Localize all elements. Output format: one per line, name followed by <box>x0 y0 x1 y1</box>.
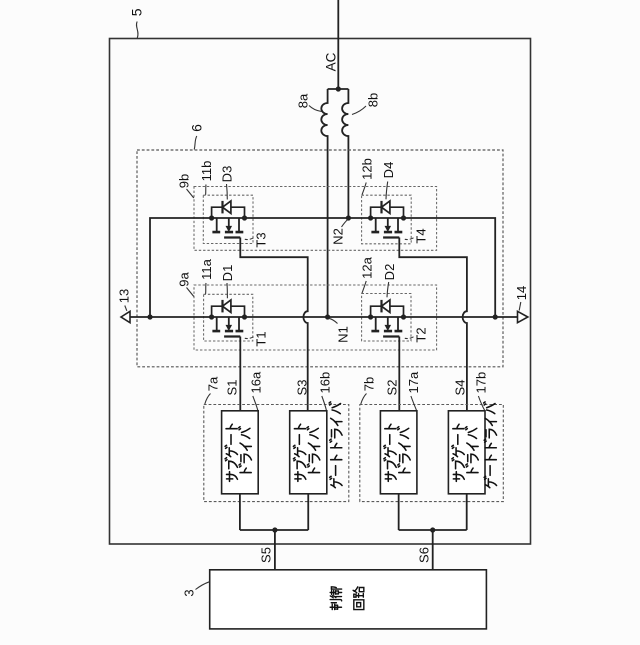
dashed box 9a (lower bidirectional switch) <box>194 285 437 350</box>
label 13 <box>117 289 132 311</box>
label 11a <box>199 258 214 294</box>
svg-text:S2: S2 <box>385 380 400 396</box>
svg-text:AC: AC <box>324 52 339 71</box>
text sub-gate-driver 16a <box>225 424 251 481</box>
svg-text:8b: 8b <box>366 93 381 107</box>
wire S6 bus bar <box>399 529 467 531</box>
svg-text:16b: 16b <box>318 372 333 394</box>
node S5 junction <box>272 527 277 532</box>
transistor T3 (with body diode D3) <box>209 201 247 238</box>
dashed box 6 (inverter block) <box>137 150 503 367</box>
label D4 <box>381 162 396 200</box>
svg-text:D1: D1 <box>220 265 235 282</box>
svg-text:16a: 16a <box>249 371 264 393</box>
label D1 <box>220 265 235 299</box>
dashed box 12a (switching element unit T2) <box>362 294 411 342</box>
dashed box 7b (gate driver unit right) <box>360 405 504 502</box>
sub gate driver box 16a <box>222 411 259 494</box>
label T4 <box>405 228 429 243</box>
label 7b <box>361 377 377 404</box>
inductor winding 8b <box>342 89 348 218</box>
label 16a <box>249 371 264 410</box>
svg-text:11a: 11a <box>199 258 214 279</box>
node left rail junction <box>147 314 152 319</box>
svg-text:5: 5 <box>129 8 145 16</box>
box 5 (power conversion device outline) <box>110 39 531 545</box>
transistor T4 (with body diode D4) <box>368 201 406 238</box>
wire driver 16b output <box>307 494 309 530</box>
svg-text:S6: S6 <box>417 547 432 563</box>
wire S4 gate path (T4 gate to driver 17b, hop over N1) <box>399 238 467 411</box>
wire driver 17a output <box>398 494 400 530</box>
label 17a <box>406 371 421 410</box>
terminal 14 <box>518 311 528 322</box>
svg-text:3: 3 <box>182 589 197 596</box>
svg-text:S3: S3 <box>295 380 310 396</box>
svg-text:7a: 7a <box>206 376 221 391</box>
label 12b <box>360 158 375 195</box>
sub gate driver box 16b <box>290 411 327 494</box>
sub gate driver box 17a <box>380 411 417 494</box>
label 11b <box>199 161 214 195</box>
node right rail junction <box>493 314 498 319</box>
transistor T2 (with body diode D2) <box>368 300 406 337</box>
node N2 <box>346 215 351 220</box>
svg-text:N1: N1 <box>336 326 351 343</box>
svg-text:6: 6 <box>189 124 205 132</box>
label 3 <box>182 582 210 597</box>
text control circuit <box>330 587 364 610</box>
inductor top bar <box>328 88 349 90</box>
label T2 <box>405 327 429 342</box>
svg-text:12b: 12b <box>360 158 375 180</box>
svg-text:17a: 17a <box>406 371 421 393</box>
svg-text:14: 14 <box>514 286 529 300</box>
svg-text:D3: D3 <box>220 166 235 183</box>
wire AC input <box>337 0 339 89</box>
control circuit box 3 <box>210 570 487 629</box>
node S6 junction <box>430 527 435 532</box>
text gate-driver label inside 7b <box>484 402 497 488</box>
sub gate driver box 17b <box>448 411 485 494</box>
svg-text:T1: T1 <box>254 331 269 346</box>
label D2 <box>382 264 397 298</box>
label 6 <box>189 124 205 150</box>
node N1 <box>325 314 330 319</box>
transistor T1 (with body diode D1) <box>209 300 247 337</box>
wire S1 gate path (T1 gate to driver 16a) <box>239 337 241 411</box>
dashed box 9b (upper bidirectional switch) <box>194 187 437 251</box>
dashed box 12b (switching element unit T4) <box>362 195 412 244</box>
label 8a <box>296 93 322 111</box>
dashed box 11b (switching element unit T3) <box>203 195 253 243</box>
label 5 <box>129 8 145 38</box>
label 8b <box>352 93 381 115</box>
text sub-gate-driver 16b <box>293 424 319 481</box>
dashed box 11a (switching element unit T1) <box>204 294 253 341</box>
svg-text:17b: 17b <box>474 372 489 394</box>
text sub-gate-driver 17a <box>384 424 410 481</box>
label 16b <box>318 372 333 411</box>
wire S3 gate path (T3 gate to driver 16b, hop over N1) <box>240 238 307 411</box>
svg-text:7b: 7b <box>362 377 377 391</box>
wire driver 17b output <box>466 494 468 530</box>
svg-text:9b: 9b <box>177 174 192 188</box>
inductor winding 8a <box>321 89 327 317</box>
svg-text:D4: D4 <box>381 162 396 179</box>
svg-text:S4: S4 <box>453 380 468 396</box>
wire S5 to control circuit <box>274 530 276 570</box>
text gate-driver label inside 7a <box>329 402 342 488</box>
label 7a <box>205 376 221 404</box>
svg-text:D2: D2 <box>382 264 397 281</box>
svg-text:N2: N2 <box>331 228 346 245</box>
node AC/coil junction <box>336 86 341 91</box>
wire S6 to control circuit <box>432 530 434 570</box>
label T3 <box>245 232 269 247</box>
label 9a <box>177 272 194 297</box>
label T1 <box>245 331 269 346</box>
dashed box 7a (gate driver unit left) <box>204 405 349 502</box>
label D3 <box>220 166 235 200</box>
svg-text:T2: T2 <box>414 327 429 342</box>
text sub-gate-driver 17b <box>452 424 478 481</box>
label 17b <box>474 372 489 411</box>
label N1 <box>329 318 351 343</box>
wire driver 16a output <box>239 494 241 530</box>
svg-text:12a: 12a <box>360 256 375 278</box>
svg-text:13: 13 <box>117 289 132 303</box>
svg-text:S1: S1 <box>225 380 240 396</box>
label 12a <box>360 256 375 293</box>
label 9b <box>177 174 194 198</box>
svg-text:11b: 11b <box>199 161 214 182</box>
svg-text:9a: 9a <box>177 272 192 287</box>
svg-text:T4: T4 <box>414 228 429 243</box>
label 14 <box>514 286 529 311</box>
label N2 <box>331 220 348 245</box>
svg-text:T3: T3 <box>254 232 269 247</box>
terminal 13 <box>121 311 130 322</box>
wire S2 gate path (T2 gate to driver 17a) <box>398 337 400 411</box>
svg-text:S5: S5 <box>259 547 274 563</box>
wire N2 rail (upper) <box>150 218 495 317</box>
wire N1 rail (lower) <box>130 316 518 318</box>
svg-text:8a: 8a <box>296 93 311 108</box>
wire S5 bus bar <box>240 529 308 531</box>
